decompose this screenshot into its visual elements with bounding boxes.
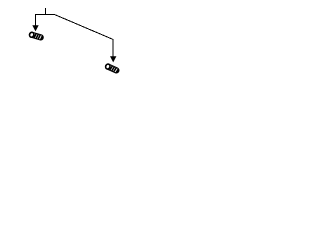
arrowhead right xyxy=(110,56,116,62)
screw right xyxy=(104,63,121,75)
arrowhead left xyxy=(32,25,38,31)
screw left xyxy=(29,31,45,41)
leader tick xyxy=(45,8,47,14)
leader polyline (left drop, horizontal, diagonal, right drop) xyxy=(36,15,114,58)
background xyxy=(0,0,150,81)
